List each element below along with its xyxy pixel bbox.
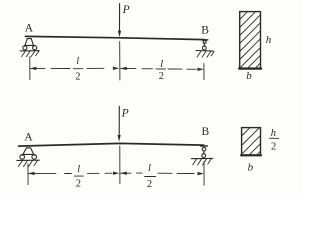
dimension l/2 right (bottom): line + arrows [120,172,203,176]
cross-section 2: small rectangle h/2 x b [241,128,261,156]
fraction l/2 (top right) [156,59,165,82]
svg-text:l: l [77,164,80,175]
label b (section 2) [248,161,254,173]
label A (bottom) [24,131,33,143]
label b (section 1) [246,70,252,82]
svg-text:P: P [121,108,129,120]
fraction l/2 (top left) [73,56,83,83]
label A (top) [25,22,34,34]
svg-text:l: l [148,163,151,174]
dimension l/2 left (bottom): line + arrows [28,172,119,176]
fraction l/2 (bottom right) [145,163,156,190]
load P (top): arrow down to beam [118,4,121,38]
svg-text:2: 2 [271,141,276,152]
support A bottom: pin-roller [17,148,40,167]
label h (section 1) [266,34,272,46]
support A top: pin-roller [20,39,39,57]
label B (top) [201,25,209,37]
fraction h/2 (section 2) [269,128,278,153]
label P (bottom) [121,108,129,120]
label P (top) [122,4,130,16]
svg-text:P: P [122,4,130,16]
svg-text:b: b [246,70,252,82]
dimension row bottom: extension lines [28,146,204,185]
svg-text:2: 2 [147,179,152,190]
dimension l/2 left (top): line + arrows [30,67,119,71]
fraction l/2 (bottom left) [74,164,83,190]
svg-text:B: B [202,126,210,138]
svg-text:h: h [271,128,276,139]
svg-text:B: B [201,25,209,37]
svg-text:2: 2 [75,72,80,83]
svg-text:2: 2 [76,179,81,190]
dimension l/2 right (top): line + arrows [120,67,203,71]
cross-section 1: tall rectangle h x b [239,12,261,69]
support B bottom: pin on roller [191,146,213,165]
support B top: pin on post [196,40,214,57]
load P (bottom): arrow down to beam [118,106,121,141]
beam 2 (bottom) [19,143,204,146]
svg-text:l: l [76,56,79,67]
svg-text:h: h [266,34,272,46]
label B (bottom) [202,126,210,138]
svg-text:A: A [24,131,33,143]
svg-text:2: 2 [159,71,164,82]
svg-text:A: A [25,22,34,34]
dimension row top: extension lines [30,41,204,80]
svg-text:b: b [248,161,254,173]
beam 1 (top) [26,36,205,39]
